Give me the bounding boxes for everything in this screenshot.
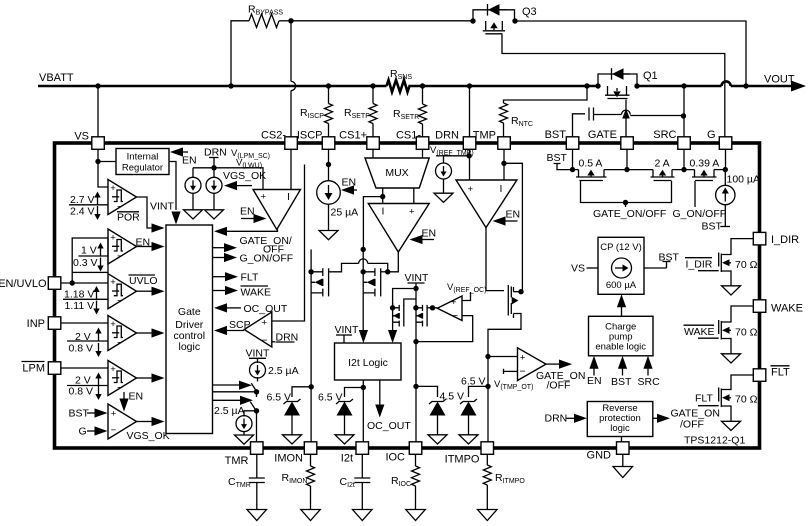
svg-text:BST: BST bbox=[69, 408, 90, 420]
pin FLT bbox=[753, 369, 766, 382]
wire mirror B drain down to I2t logic bbox=[359, 330, 368, 343]
op-amp VGS_OK comparator bbox=[108, 404, 137, 439]
svg-text:I2t: I2t bbox=[341, 453, 353, 465]
svg-text:CS1-: CS1- bbox=[396, 130, 421, 142]
svg-text:+: + bbox=[110, 319, 116, 330]
svg-text:−: − bbox=[117, 338, 123, 349]
node ITMPO comparator tap bbox=[485, 354, 490, 359]
wire CS2- riser with hop over main line bbox=[290, 21, 292, 82]
pin TMP bbox=[498, 137, 511, 150]
chip boundary TPS1212-Q1 bbox=[55, 143, 760, 448]
capacitor BST-SRC bbox=[573, 114, 586, 137]
MUX block (trapezoid) bbox=[365, 158, 429, 188]
svg-text:VGS_OK: VGS_OK bbox=[223, 170, 266, 182]
node between switches bbox=[213, 391, 255, 393]
node: RBYPASS left tap bbox=[228, 83, 233, 88]
svg-text:GATE: GATE bbox=[588, 129, 617, 141]
MUX outputs bbox=[382, 188, 384, 204]
svg-text:+: + bbox=[110, 233, 116, 244]
wire CS2- pin to I input bbox=[290, 149, 292, 189]
transistor WAKE output FET bbox=[684, 306, 758, 363]
svg-text:BST: BST bbox=[702, 221, 723, 233]
node ISCP internal bbox=[326, 162, 331, 167]
box around 1V/0.3V thresholds bbox=[72, 238, 108, 272]
svg-text:EN: EN bbox=[506, 209, 521, 221]
svg-text:BST: BST bbox=[611, 376, 632, 388]
wire CS1- into MUX bbox=[422, 149, 424, 158]
resistor RIMON bbox=[310, 454, 312, 466]
UVLO output bbox=[137, 290, 153, 292]
resistor RISCP riser bbox=[328, 86, 330, 104]
svg-text:+: + bbox=[261, 192, 267, 203]
svg-text:I2t Logic: I2t Logic bbox=[348, 357, 388, 369]
svg-text:VS: VS bbox=[571, 263, 585, 275]
svg-text:2.4 V: 2.4 V bbox=[70, 206, 95, 218]
transistor 0.5 A pull-up FET bbox=[576, 158, 607, 181]
svg-text:MUX: MUX bbox=[385, 167, 408, 179]
resistor RBYPASS bbox=[249, 14, 279, 28]
transistor Q1 bbox=[595, 68, 657, 98]
pin CS1- bbox=[416, 137, 429, 150]
svg-text:I: I bbox=[287, 191, 290, 203]
current source DRN bbox=[213, 168, 215, 178]
pin GND bbox=[617, 442, 630, 455]
wire Q3 left feed bbox=[291, 20, 473, 22]
svg-text:INP: INP bbox=[27, 318, 45, 330]
svg-text:+: + bbox=[451, 297, 457, 308]
svg-text:Internal: Internal bbox=[127, 152, 159, 163]
svg-text:−: − bbox=[452, 310, 458, 322]
main power wire RSNS to Q1 bbox=[422, 85, 599, 88]
FLT out bbox=[213, 276, 226, 278]
svg-text:VINT: VINT bbox=[405, 272, 430, 284]
svg-text:Regulator: Regulator bbox=[122, 163, 163, 174]
svg-text:OC_OUT: OC_OUT bbox=[244, 303, 288, 315]
svg-text:/OFF: /OFF bbox=[680, 419, 704, 431]
pin IMON bbox=[304, 442, 317, 455]
pin ITMPO bbox=[481, 442, 494, 455]
wire SRC pin to rail bbox=[683, 149, 685, 169]
pin BST bbox=[566, 137, 579, 150]
capacitor CTMR bbox=[256, 454, 258, 477]
svg-text:LPM: LPM bbox=[22, 363, 45, 375]
pin CS1+ bbox=[367, 137, 380, 150]
svg-text:UVLO: UVLO bbox=[129, 275, 158, 287]
main power wire Q1 to hop bbox=[637, 85, 722, 88]
svg-text:−: − bbox=[520, 366, 526, 378]
svg-text:ISCP: ISCP bbox=[297, 130, 323, 142]
node: Q3 top to VOUT bbox=[743, 83, 748, 88]
VGS_OK output bbox=[137, 421, 153, 423]
G_ON/OFF out bbox=[213, 257, 225, 259]
EN input to internal regulator bbox=[170, 147, 183, 156]
GATE_ON output arrow bbox=[546, 363, 560, 365]
pin CS2- bbox=[285, 137, 298, 150]
svg-text:/OFF: /OFF bbox=[547, 380, 571, 392]
box CP (12 V) charge pump bbox=[598, 237, 644, 294]
wire DRN riser bbox=[469, 86, 471, 137]
svg-text:enable logic: enable logic bbox=[595, 342, 646, 353]
svg-text:G_ON/OFF: G_ON/OFF bbox=[673, 208, 727, 220]
transistor FLT output FET bbox=[695, 375, 758, 431]
wire VINT rail down to IOC pin bbox=[415, 289, 417, 442]
capacitor CI2t bbox=[361, 454, 363, 477]
svg-text:−: − bbox=[117, 251, 123, 262]
svg-text:0.8 V: 0.8 V bbox=[69, 386, 94, 398]
svg-text:EN: EN bbox=[240, 206, 255, 218]
svg-text:logic: logic bbox=[178, 341, 200, 353]
svg-text:+: + bbox=[110, 277, 116, 288]
op-amp SCP comparator (left pointing) bbox=[244, 312, 272, 347]
Q1 body diode branch bbox=[598, 74, 637, 86]
svg-text:WAKE: WAKE bbox=[241, 287, 272, 299]
svg-text:Q3: Q3 bbox=[522, 6, 537, 18]
svg-text:VINT: VINT bbox=[335, 324, 360, 336]
svg-text:OC_OUT: OC_OUT bbox=[367, 420, 411, 432]
wire Q3 drain to VOUT node bbox=[515, 21, 746, 86]
wire to GATE_ON comparator bbox=[488, 356, 518, 358]
svg-text:VBATT: VBATT bbox=[39, 72, 74, 84]
VOUT arrowhead bbox=[791, 81, 806, 92]
svg-text:I: I bbox=[500, 183, 503, 195]
wire ISCP pin down to 25uA node bbox=[328, 149, 330, 181]
pin WAKE bbox=[753, 300, 766, 313]
Q3 mosfet body bbox=[485, 21, 487, 30]
ISCP comparator output into box bbox=[214, 227, 227, 236]
box gate driver control logic bbox=[166, 225, 213, 434]
svg-text:FLT: FLT bbox=[695, 393, 713, 405]
transistor big PMOS (temp stage) bbox=[488, 285, 524, 357]
svg-text:0.3 V: 0.3 V bbox=[73, 257, 98, 269]
pin ISCP bbox=[322, 137, 335, 150]
svg-text:+: + bbox=[468, 184, 474, 195]
pin SRC bbox=[678, 137, 691, 150]
resistor RIOC bbox=[415, 454, 417, 466]
current source EN (left) bbox=[184, 168, 203, 219]
wire VINT to sense FET bbox=[393, 289, 416, 308]
gate drive bracket under 0.5A/2A FETs bbox=[581, 181, 672, 203]
zener 6.5V on IMON bbox=[292, 387, 311, 397]
svg-text:WAKE: WAKE bbox=[684, 326, 715, 338]
svg-text:G: G bbox=[79, 426, 87, 438]
wire ILIM apex to PMOS gate rail bbox=[388, 252, 399, 272]
svg-text:+: + bbox=[409, 207, 415, 218]
current source V(REF_TMP) bbox=[443, 156, 445, 163]
box internal regulator bbox=[116, 149, 169, 175]
FET rail segments bbox=[573, 169, 579, 171]
wire Q1 gate riser with up arrow bbox=[625, 100, 627, 138]
svg-text:BST: BST bbox=[547, 152, 568, 164]
svg-text:−: − bbox=[111, 425, 117, 436]
wire EN/UVLO pin to UVLO comparator bbox=[61, 282, 108, 284]
wire GATE pin to rail bbox=[626, 149, 628, 169]
transistor PMOS mirror A bbox=[308, 249, 328, 441]
OC_OUT in bbox=[214, 303, 227, 312]
svg-text:EN/UVLO: EN/UVLO bbox=[0, 278, 47, 290]
transistor OC sense FET B bbox=[413, 305, 432, 327]
svg-text:−: − bbox=[117, 383, 123, 394]
wire MUX left output to I2t rail bbox=[363, 197, 382, 249]
svg-text:0.5 A: 0.5 A bbox=[579, 158, 603, 170]
svg-text:2.5 µA: 2.5 µA bbox=[214, 405, 245, 417]
svg-text:CS2-: CS2- bbox=[261, 130, 286, 142]
node TMR net bbox=[254, 408, 259, 413]
svg-text:70 Ω: 70 Ω bbox=[735, 259, 758, 271]
svg-text:BST: BST bbox=[545, 129, 567, 141]
WAKE out bbox=[213, 290, 226, 292]
wire VS riser bbox=[97, 86, 99, 137]
pin TMR bbox=[251, 442, 264, 455]
wire hop over G riser on main line bbox=[722, 81, 731, 86]
EN comparator output bbox=[137, 246, 153, 248]
wire DRN node to EN source and comparator bbox=[193, 168, 263, 190]
OC_OUT arrow below I2t logic bbox=[379, 380, 381, 406]
pin VS bbox=[92, 137, 105, 150]
svg-text:G_ON/OFF: G_ON/OFF bbox=[240, 253, 294, 265]
svg-text:EN: EN bbox=[182, 155, 197, 167]
svg-text:IOC: IOC bbox=[385, 452, 405, 464]
box I2t Logic bbox=[335, 343, 402, 380]
wire SRC riser bbox=[683, 86, 685, 137]
node: RBYPASS/CS2- junction bbox=[288, 18, 293, 23]
box reverse protection logic bbox=[587, 402, 653, 437]
transistor Q3 bbox=[470, 4, 536, 34]
pin IOC bbox=[409, 442, 422, 455]
current source 2.5uA lower to ground bbox=[244, 411, 257, 417]
svg-text:1.11 V: 1.11 V bbox=[65, 300, 95, 312]
svg-text:−: − bbox=[117, 296, 123, 307]
zener 6.5V on ITMPO bbox=[469, 386, 489, 397]
wire BST pin down to FET rail bbox=[572, 149, 574, 169]
svg-text:I: I bbox=[382, 206, 385, 218]
wire LPM pin to comparator bbox=[61, 367, 108, 369]
svg-text:I_DIR: I_DIR bbox=[686, 259, 713, 271]
wire G pin to rail bbox=[725, 149, 727, 169]
wire IMON rail bbox=[309, 384, 314, 389]
svg-text:TMP: TMP bbox=[473, 130, 496, 142]
wire POR output to gate driver bbox=[137, 197, 153, 228]
op-amp EN comparator (1V/0.3V) bbox=[108, 229, 137, 264]
wire TMP comparator apex to big PMOS gate bbox=[486, 228, 504, 291]
node IOC zener tap bbox=[413, 384, 418, 389]
svg-text:Q1: Q1 bbox=[643, 70, 658, 82]
resistor RSNS bbox=[387, 80, 422, 92]
wire RBYPASS to Q3 node bbox=[279, 20, 291, 22]
op-amp LPM comparator bbox=[108, 361, 137, 396]
reverse protection output bbox=[653, 417, 658, 419]
svg-text:2 A: 2 A bbox=[655, 158, 670, 170]
svg-text:FLT: FLT bbox=[241, 272, 259, 284]
switch lower bbox=[250, 402, 257, 413]
svg-text:SRC: SRC bbox=[638, 376, 661, 388]
transistor I_DIR output FET bbox=[685, 239, 758, 295]
svg-text:POR: POR bbox=[117, 212, 140, 224]
box charge pump enable logic bbox=[589, 316, 654, 356]
V(TMP_OT) reference bbox=[503, 369, 505, 374]
transistor 0.39 A FET bbox=[690, 158, 720, 181]
ground below CTMR bbox=[247, 510, 267, 521]
wire to TMR pin bbox=[256, 411, 258, 442]
svg-text:TPS1212-Q1: TPS1212-Q1 bbox=[684, 435, 745, 447]
svg-text:DRN: DRN bbox=[204, 147, 227, 159]
svg-text:ITMPO: ITMPO bbox=[445, 454, 480, 466]
Q1 mosfet body bbox=[607, 86, 609, 95]
node DRN source bbox=[211, 165, 216, 170]
svg-text:+: + bbox=[110, 364, 116, 375]
svg-text:EN: EN bbox=[422, 228, 437, 240]
svg-text:SRC: SRC bbox=[653, 129, 676, 141]
op-amp INP comparator bbox=[108, 316, 137, 351]
svg-text:VGS_OK: VGS_OK bbox=[127, 430, 170, 442]
svg-text:6.5 V: 6.5 V bbox=[461, 376, 486, 388]
svg-text:2.5 µA: 2.5 µA bbox=[268, 365, 299, 377]
svg-text:VOUT: VOUT bbox=[764, 74, 795, 86]
main power wire hop to VOUT arrow bbox=[731, 85, 794, 88]
svg-text:GND: GND bbox=[587, 450, 612, 462]
op-amp ILIM comparator (down pointing) bbox=[368, 204, 429, 253]
pin DRN bbox=[463, 137, 476, 150]
wire CS1+ into MUX bbox=[372, 149, 374, 158]
wire VS pin to internal regulator and POR bbox=[98, 149, 108, 187]
Q3 body diode branch bbox=[473, 10, 515, 21]
svg-text:+: + bbox=[110, 183, 116, 194]
zener 4.5V on IOC bbox=[416, 386, 438, 397]
svg-text:+: + bbox=[111, 409, 117, 420]
svg-text:DRN: DRN bbox=[435, 130, 459, 142]
svg-text:TMR: TMR bbox=[225, 455, 249, 467]
transistor PMOS mirror B bbox=[361, 247, 391, 331]
resistor RSETF riser bbox=[372, 86, 374, 104]
svg-text:600 µA: 600 µA bbox=[606, 280, 637, 291]
resistor RITMPO bbox=[486, 454, 488, 465]
pin I2t bbox=[356, 442, 369, 455]
resistor RSETR riser bbox=[422, 86, 424, 104]
svg-text:I_DIR: I_DIR bbox=[771, 234, 799, 246]
resistor RNTC riser bbox=[504, 86, 588, 103]
wire VINT rail from regulator to gate driver box bbox=[169, 162, 176, 211]
svg-text:GATE_ON/OFF: GATE_ON/OFF bbox=[593, 208, 666, 220]
svg-text:EN: EN bbox=[129, 391, 144, 403]
svg-text:EN: EN bbox=[587, 375, 602, 387]
SCP comparator output into box bbox=[214, 326, 227, 335]
svg-text:SCP: SCP bbox=[229, 319, 251, 331]
wire reverse protection to GND pin bbox=[621, 437, 623, 442]
op-amp TMP comparator (down pointing) bbox=[456, 180, 517, 228]
svg-text:VINT: VINT bbox=[150, 201, 175, 213]
svg-text:0.8 V: 0.8 V bbox=[69, 343, 94, 355]
wire Q3 gate net to G riser bbox=[502, 35, 725, 138]
switch upper bbox=[257, 377, 259, 382]
wire INP pin to comparator bbox=[61, 322, 108, 324]
svg-text:70 Ω: 70 Ω bbox=[735, 327, 758, 339]
svg-text:DRN: DRN bbox=[545, 413, 568, 425]
GATE_ON/OFF out bbox=[213, 247, 225, 249]
wire TMP pin to I input and right rail bbox=[503, 149, 505, 180]
svg-text:WAKE: WAKE bbox=[771, 303, 803, 315]
ground below GND pin bbox=[622, 454, 624, 466]
svg-text:Gate: Gate bbox=[178, 306, 201, 318]
transistor OC sense FET A bbox=[390, 299, 416, 331]
current source 2.5uA upper bbox=[250, 362, 266, 378]
pin G bbox=[719, 137, 732, 150]
svg-text:G: G bbox=[707, 129, 716, 141]
svg-text:25 µA: 25 µA bbox=[331, 207, 359, 219]
svg-text:100 µA: 100 µA bbox=[727, 174, 761, 186]
svg-text:−: − bbox=[262, 335, 268, 347]
current source 25uA bbox=[317, 181, 341, 205]
svg-text:logic: logic bbox=[610, 423, 630, 434]
svg-text:FLT: FLT bbox=[771, 367, 790, 379]
pin I_DIR bbox=[753, 232, 766, 245]
op-amp POR comparator bbox=[108, 180, 137, 215]
gate lead 0.39A FET bbox=[694, 181, 696, 207]
wire ITMPO rail bbox=[487, 357, 489, 442]
svg-text:1 V: 1 V bbox=[81, 245, 97, 257]
node VS internal bbox=[95, 159, 100, 164]
op-amp UVLO comparator bbox=[108, 274, 137, 309]
svg-text:+: + bbox=[262, 318, 268, 329]
wire mirror gate cross-couple with hop bbox=[329, 263, 359, 271]
wire I2t logic to I2t pin bbox=[362, 380, 364, 442]
svg-text:IMON: IMON bbox=[274, 453, 303, 465]
wire RBYPASS left riser bbox=[231, 21, 249, 86]
pin EN/UVLO bbox=[48, 277, 61, 290]
node: VS tap bbox=[95, 83, 100, 88]
svg-text:+: + bbox=[520, 353, 526, 364]
OC comparator minus feedback bbox=[416, 316, 473, 342]
pin GATE bbox=[621, 137, 634, 150]
transistor 2 A pull-down FET bbox=[651, 158, 675, 181]
svg-text:CS1+: CS1+ bbox=[339, 130, 367, 142]
main power wire VBATT to RSNS bbox=[38, 85, 387, 88]
op-amp ISCP comparator (down pointing) bbox=[253, 190, 301, 230]
wire OC comparator gate node bbox=[430, 305, 435, 310]
svg-text:0.39 A: 0.39 A bbox=[690, 158, 720, 170]
op-amp OC comparator (left pointing) bbox=[437, 296, 462, 321]
wire CP to charge pump enable logic bbox=[621, 306, 623, 316]
op-amp GATE_ON comparator (temp) bbox=[518, 348, 547, 381]
svg-text:CP (12 V): CP (12 V) bbox=[600, 242, 642, 253]
wire DRN pin to TMP comparator plus bbox=[469, 149, 471, 180]
svg-text:VS: VS bbox=[74, 131, 89, 143]
pin INP bbox=[48, 317, 61, 330]
svg-text:70 Ω: 70 Ω bbox=[735, 394, 758, 406]
pin LPM bbox=[48, 362, 61, 375]
zener 6.5V on I2t bbox=[345, 388, 364, 398]
SCP plus input rail from ISCP node bbox=[272, 165, 305, 322]
